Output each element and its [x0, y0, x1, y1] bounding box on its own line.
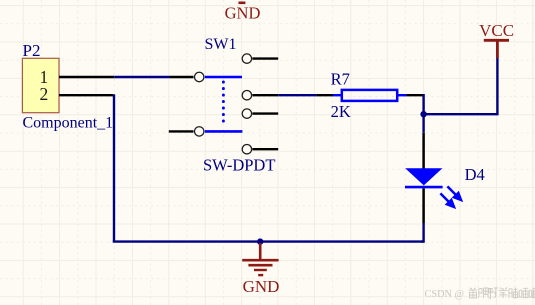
svg-text:P2: P2 — [23, 41, 41, 60]
power port GND (top) — [225, 3, 261, 23]
power port VCC — [479, 21, 514, 58]
SW1 lever B — [205, 130, 243, 133]
P2 pin 2 — [59, 94, 113, 96]
SW1 throw A1 pin — [242, 54, 278, 63]
svg-text:CSDN @: CSDN @ — [425, 289, 465, 300]
svg-text:VCC: VCC — [479, 21, 514, 40]
svg-text:D4: D4 — [465, 165, 485, 184]
wire P2 pin1 to SW1 pole A — [114, 76, 170, 78]
P2 value Component_1 — [23, 115, 114, 132]
wire P2 pin2 down left side — [113, 94, 115, 241]
wire bottom rail — [113, 240, 424, 242]
svg-text:2K: 2K — [331, 102, 351, 121]
P2 designator — [23, 41, 41, 60]
junction node at R7/VCC/D4 — [420, 111, 426, 117]
svg-text:SW1: SW1 — [205, 36, 237, 53]
wire D4 cathode to bottom rail — [421, 223, 424, 242]
ground GND (bottom) — [242, 243, 279, 296]
wire R7 to LED node — [422, 95, 423, 133]
svg-text:R7: R7 — [331, 70, 350, 89]
D4 designator — [465, 165, 485, 184]
SW1 pole A pin — [170, 72, 204, 81]
svg-text:GND: GND — [225, 4, 261, 23]
wire SW1 throw A2 to R7 — [278, 94, 316, 96]
svg-text:Component_1: Component_1 — [23, 115, 114, 132]
junction node at GND — [257, 238, 263, 244]
SW1 lever A — [205, 76, 242, 79]
LED D4 anode pin — [422, 133, 425, 169]
SW1 throw A2 pin — [242, 91, 278, 100]
switch SW1 value SW-DPDT — [203, 155, 275, 174]
P2 pin 1 number — [40, 67, 49, 87]
connector P2 body — [22, 58, 59, 112]
LED D4 cathode pin — [422, 188, 425, 223]
LED D4 light arrows — [440, 186, 462, 208]
svg-text:GND: GND — [243, 277, 280, 296]
wire junction to VCC — [424, 58, 498, 114]
svg-text:SW-DPDT: SW-DPDT — [203, 155, 275, 174]
SW1 gang link (dotted) — [222, 82, 225, 127]
R7 value 2K — [331, 102, 351, 121]
resistor R7 left pin — [316, 94, 333, 96]
svg-text:2: 2 — [40, 84, 49, 104]
resistor R7 body — [333, 90, 407, 101]
SW1 throw B2 pin — [242, 145, 278, 154]
R7 designator — [331, 70, 350, 89]
SW1 pole B pin — [169, 127, 204, 136]
P2 pin 1 — [59, 76, 114, 78]
P2 pin 2 number — [40, 84, 49, 104]
LED D4 body — [405, 168, 443, 187]
switch SW1 designator — [205, 36, 237, 53]
SW1 throw B1 pin — [242, 109, 278, 118]
resistor R7 right pin — [406, 94, 423, 96]
